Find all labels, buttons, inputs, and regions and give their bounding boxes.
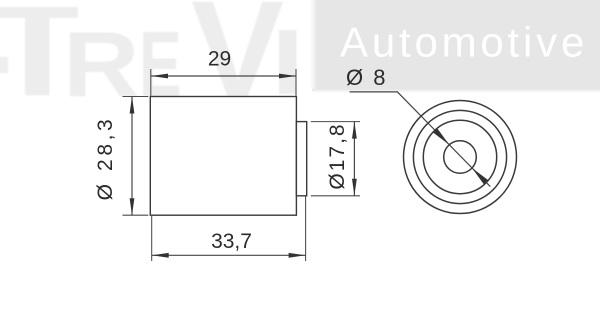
hub side view [296, 122, 306, 196]
svg-text:Ø17,8: Ø17,8 [326, 122, 349, 189]
watermark edge fragment [0, 57, 8, 73]
dimension 29 line [151, 75, 296, 77]
svg-text:33,7: 33,7 [211, 230, 252, 253]
pulley front view outer circle [404, 101, 517, 214]
dimension D8 arrows [433, 128, 488, 184]
dimension 33,7 line [152, 254, 306, 256]
watermark letter I [279, 30, 297, 94]
roller body side view [150, 97, 296, 216]
dimension D17,8 arrows [352, 122, 357, 196]
dimension 33,7 arrows [152, 253, 306, 258]
svg-text:R: R [63, 14, 140, 118]
svg-text:Ø 28,3: Ø 28,3 [94, 116, 117, 201]
dimension D28,3 extension lines [123, 97, 149, 216]
dimension 29 extension lines [151, 69, 296, 96]
dimension D28,3 line [131, 97, 133, 216]
dimension 33,7 extension lines [152, 197, 306, 262]
dimension D8 leader line [350, 92, 491, 187]
pulley front view circle 2 [413, 110, 506, 203]
watermark letter T [0, 7, 78, 95]
dimension D17,8 line [353, 122, 355, 196]
pulley front view circle 3 [423, 120, 496, 193]
dimension 29 arrows [151, 74, 296, 79]
dimension D17,8 extension lines [311, 122, 360, 196]
svg-text:29: 29 [208, 48, 231, 71]
pulley front view bore circle [444, 141, 477, 174]
svg-text:Ø 8: Ø 8 [346, 65, 387, 90]
svg-text:Automotive: Automotive [340, 19, 588, 66]
dimension D28,3 arrows [130, 97, 135, 216]
Automotive banner [310, 0, 600, 93]
